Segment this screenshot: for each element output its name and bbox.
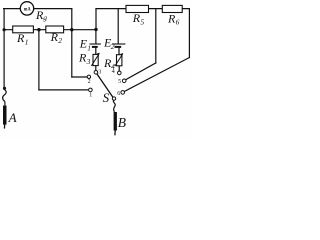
probe A flexible wire [3, 90, 7, 106]
svg-text:mA: mA [24, 6, 31, 12]
wire R3 to contact 3 [95, 66, 97, 71]
wire horizontal to contact 1 [39, 89, 89, 91]
resistor R6 [162, 5, 182, 26]
contact 2 [87, 75, 90, 85]
svg-text:5: 5 [140, 17, 144, 26]
contact 5 [118, 79, 126, 85]
wire E1 branch upper [95, 30, 97, 44]
wire R4 to contact 4 [118, 66, 120, 71]
contact 6 [117, 91, 124, 97]
svg-text:2: 2 [58, 36, 62, 45]
contact 4 [112, 69, 121, 75]
svg-text:1: 1 [89, 93, 92, 99]
wire left vertical [3, 9, 5, 88]
svg-text:A: A [8, 110, 17, 125]
svg-text:6: 6 [176, 18, 180, 27]
svg-text:6: 6 [117, 91, 120, 97]
contact 1 [89, 88, 93, 98]
wire vertical from meter corner down to R1R2 wire and contact 2 row [71, 9, 73, 77]
wire vertical from R1-R2 midpoint down [38, 30, 40, 90]
wire E1 to R3 [95, 48, 97, 55]
rheostat R4 [103, 53, 123, 71]
svg-text:5: 5 [118, 79, 121, 85]
junction dot meter branch on R1R2 wire [70, 28, 73, 31]
svg-text:4: 4 [112, 69, 115, 75]
junction dot left R1R2 [3, 28, 6, 31]
svg-text:R: R [16, 31, 25, 45]
junction dot probe A top [3, 87, 6, 90]
rheostat R3 [78, 51, 100, 66]
wire top right section [96, 8, 189, 10]
probe A handle [3, 106, 7, 129]
battery E1 [79, 37, 101, 53]
svg-text:3: 3 [98, 69, 101, 75]
contact 3 [94, 69, 101, 75]
probe B handle [114, 112, 117, 135]
wire E2 to R4 [118, 48, 120, 55]
resistor R5 [126, 5, 149, 26]
resistor R1 [13, 26, 34, 46]
wire vertical between R5 and R6 down [155, 9, 157, 63]
svg-text:3: 3 [86, 57, 91, 66]
junction dot between R1 R2 [37, 28, 40, 31]
svg-text:2: 2 [111, 42, 115, 51]
wire top-left horizontal (left corner to meter) [4, 8, 21, 10]
wire right edge vertical [188, 9, 190, 58]
svg-text:1: 1 [25, 37, 29, 46]
meter mA [20, 2, 33, 15]
wire diagonal to contact 6 [124, 58, 189, 92]
svg-text:S: S [103, 90, 110, 105]
wire diagonal to contact 5 [126, 63, 156, 80]
wire E2 branch from top [117, 9, 119, 44]
label B [118, 115, 126, 130]
wire corner at node above E1 [95, 9, 97, 30]
resistor R2 [46, 26, 64, 45]
wire top (meter to corner above R1R2 right) [34, 8, 72, 10]
svg-text:2: 2 [88, 79, 91, 85]
junction dot node above E1 [94, 28, 97, 31]
label S [103, 90, 110, 105]
probe B flexible wire [113, 100, 115, 112]
label Rg [35, 8, 47, 22]
battery E2 [103, 35, 125, 51]
wire horizontal to contact 2 [72, 76, 87, 78]
wire R1R2 row [4, 29, 96, 31]
svg-text:g: g [43, 13, 47, 22]
svg-text:B: B [118, 115, 126, 130]
svg-text:1: 1 [87, 43, 91, 52]
switch S pivot [112, 97, 115, 100]
switch S blade [97, 74, 113, 97]
label A [8, 110, 17, 125]
